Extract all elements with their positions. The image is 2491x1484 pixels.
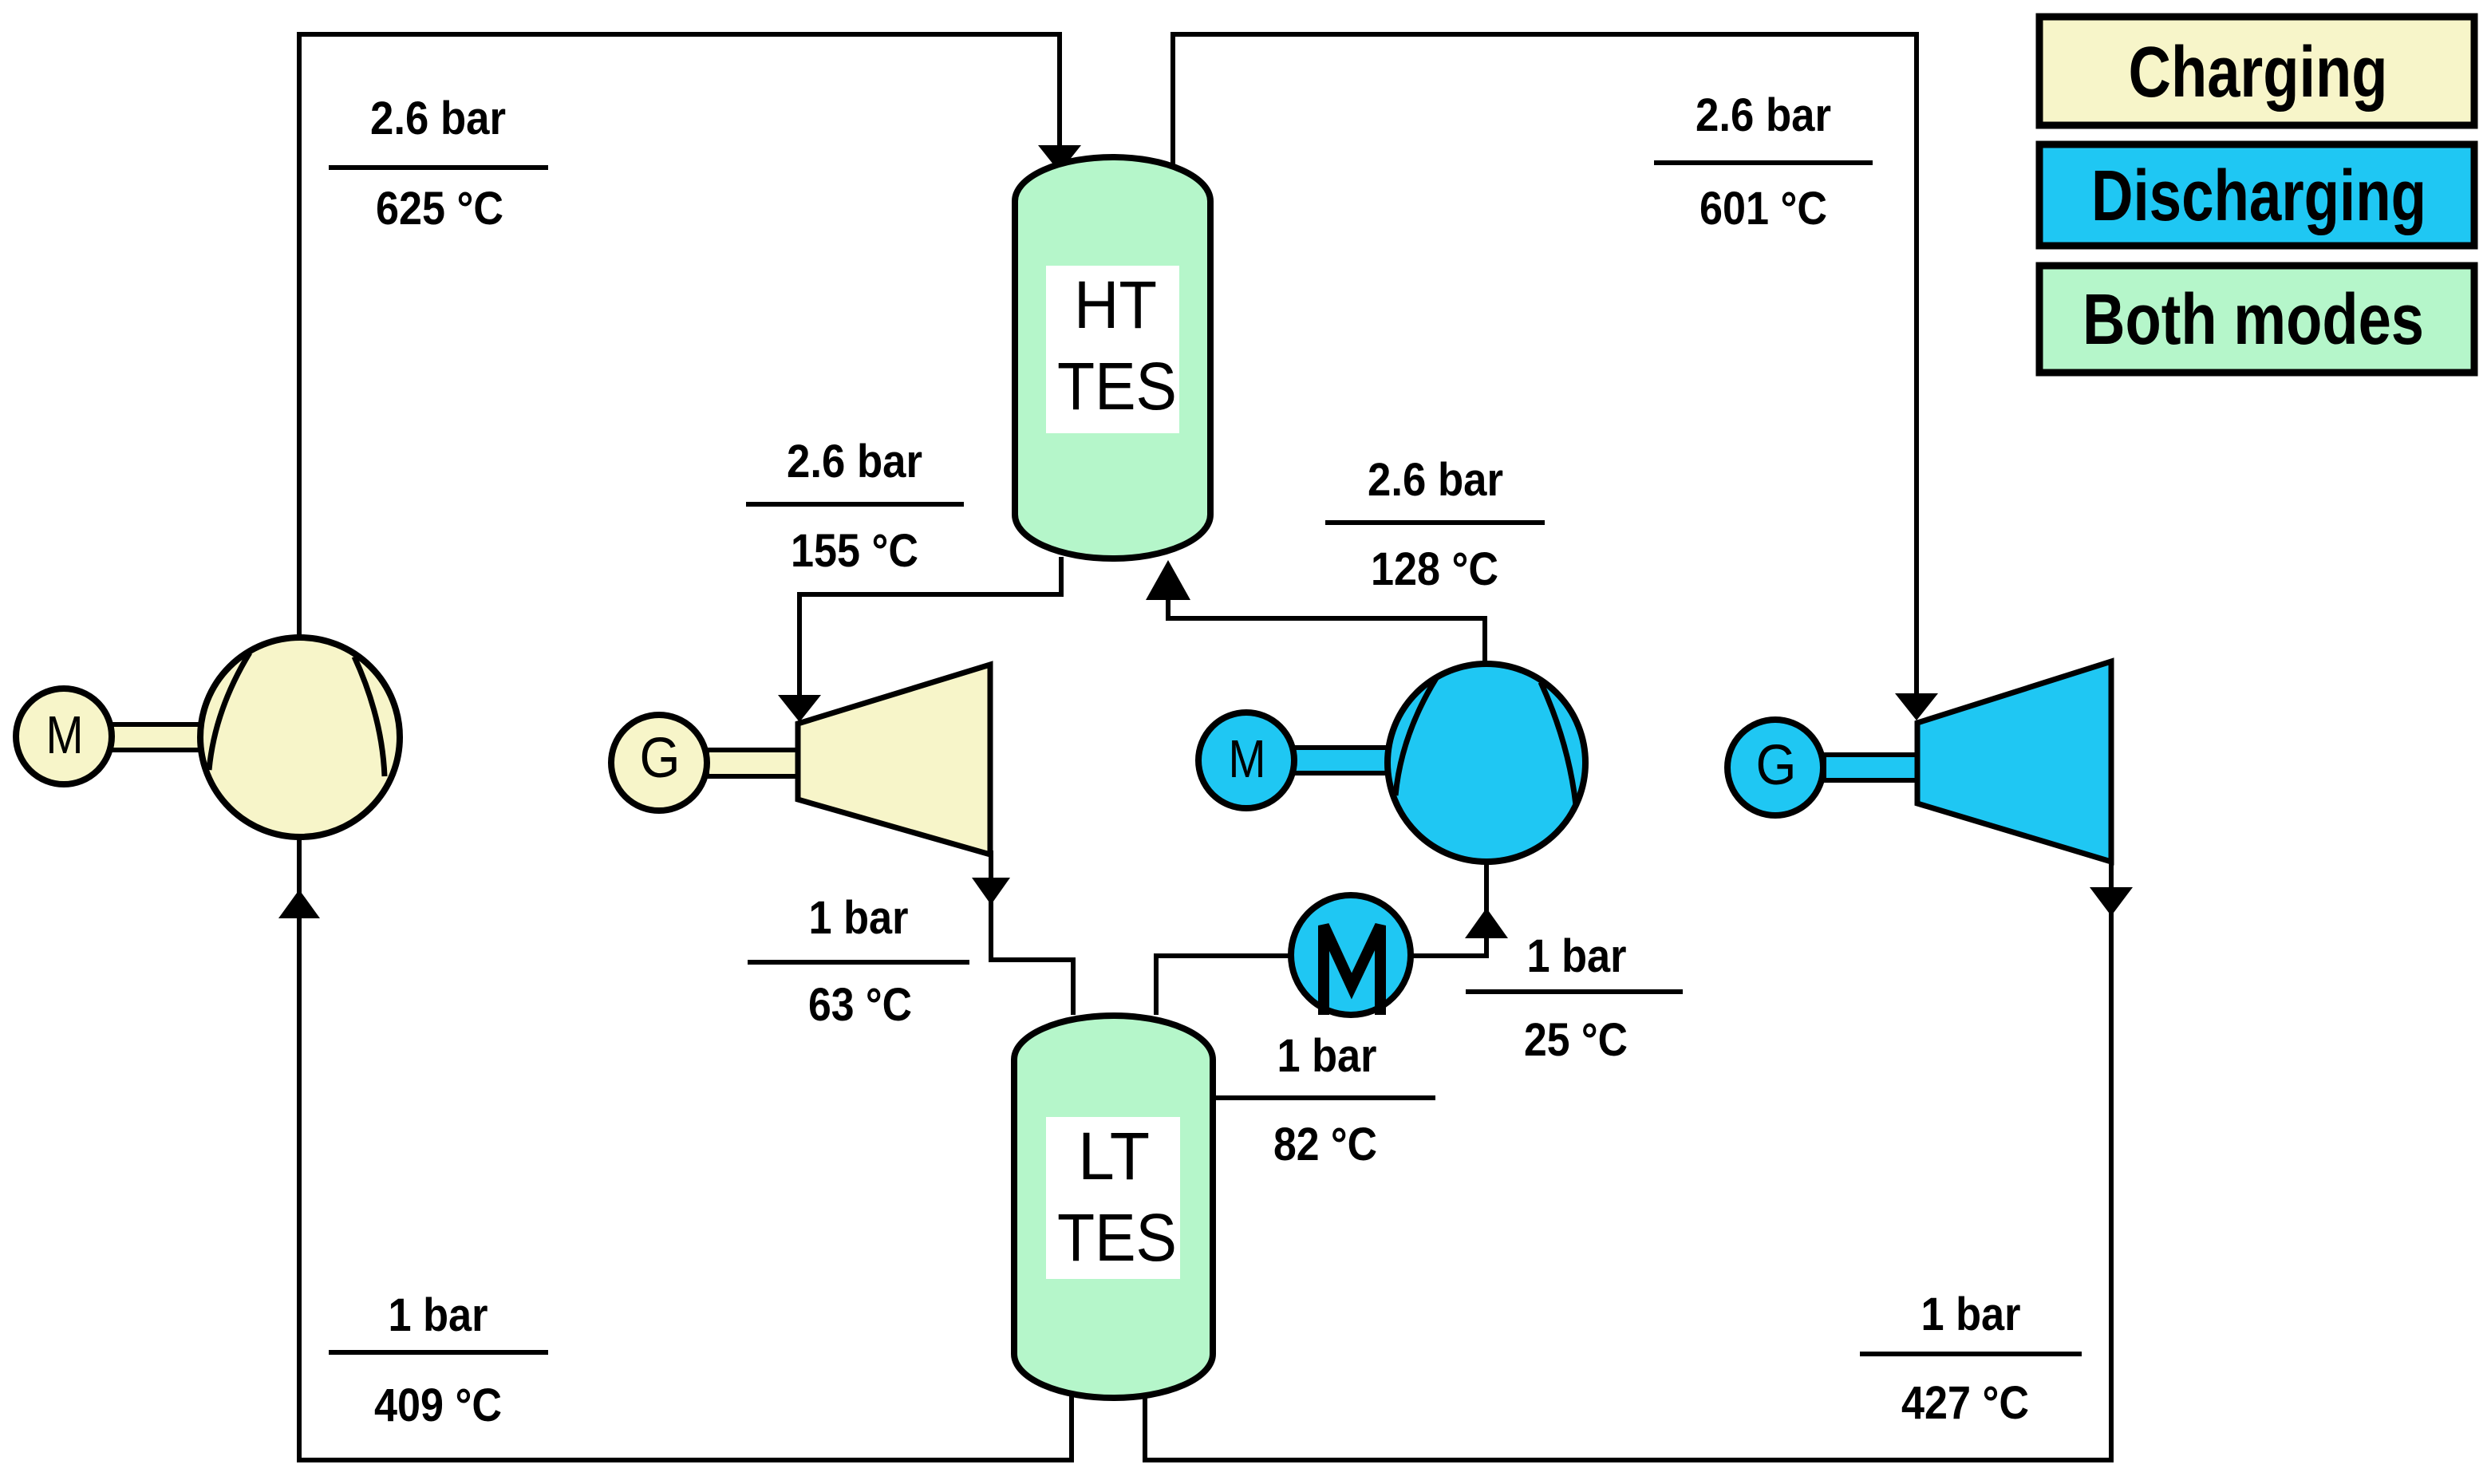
wire bottom-right horizontal [1143,1458,2114,1462]
label 1 bar / 25 C [1466,930,1683,1066]
label 2.6 bar / 625 C [329,93,548,235]
label 1 bar / 427 C [1860,1289,2082,1429]
svg-text:M: M [1229,729,1266,789]
LT TES vessel [1014,1016,1213,1398]
svg-text:409 °C: 409 °C [374,1379,502,1431]
wire LT TES bottom-right stub [1143,1395,1147,1462]
svg-text:Both modes: Both modes [2082,280,2424,360]
svg-text:Discharging: Discharging [2091,156,2426,236]
turbine T2 [1917,661,2111,862]
svg-text:25 °C: 25 °C [1524,1014,1628,1066]
wire turbine T2 outlet right drop [2109,860,2114,1462]
arrow into HT TES top [1038,145,1081,172]
svg-text:427 °C: 427 °C [1901,1377,2029,1429]
label 2.6 bar / 601 C [1654,89,1873,235]
arrow up into compressor K2 [1465,908,1508,938]
label 2.6 bar / 128 C [1325,454,1545,595]
svg-text:LT: LT [1078,1119,1150,1194]
arrow into turbine T2 inlet [1895,693,1938,720]
svg-text:TES: TES [1057,1200,1177,1275]
arrow into turbine T1 inlet [778,695,821,722]
legend box Both modes [2039,266,2474,373]
wire left riser bottom (compressor K1 outlet loop) [297,835,302,1462]
svg-text:2.6 bar: 2.6 bar [1696,89,1831,141]
turbine T1 [798,665,990,854]
svg-text:128 °C: 128 °C [1371,543,1498,595]
wire HT TES top-right riser [1170,32,1175,169]
svg-text:HT: HT [1074,267,1157,342]
motor M2 shaft [1293,748,1390,773]
svg-text:1 bar: 1 bar [1277,1030,1377,1082]
label 1 bar / 409 C [329,1289,548,1431]
wire left riser top [297,37,302,640]
svg-text:2.6 bar: 2.6 bar [1368,454,1503,506]
wire compressor K2 discharge to HT TES bottom [1168,589,1485,669]
wire LT TES bottom-left stub [1069,1395,1074,1462]
svg-text:Charging: Charging [2129,33,2388,112]
generator G1 [611,715,707,811]
motor M1 shaft [110,724,204,750]
svg-text:601 °C: 601 °C [1699,183,1827,235]
legend box Discharging [2039,144,2474,246]
svg-text:625 °C: 625 °C [376,183,503,235]
svg-text:G: G [1756,734,1797,797]
arrow up into compressor K1 [278,890,320,918]
wire bottom-left horizontal [297,1458,1074,1462]
wire HT TES bottom-left outlet [799,557,1061,716]
svg-text:M: M [46,705,84,765]
motor M1 [16,689,112,784]
compressor K2 [1388,664,1585,862]
svg-text:1 bar: 1 bar [1921,1289,2021,1340]
wire LT TES top-right to compressor K2 suction [1156,858,1486,1015]
wire drop into HT TES top [1057,32,1062,164]
svg-text:G: G [640,727,681,790]
svg-text:2.6 bar: 2.6 bar [370,93,506,144]
wire top-right horizontal [1170,32,1919,37]
motor M2 [1198,712,1294,808]
label 1 bar / 82 C [1216,1030,1435,1170]
generator G2 shaft [1824,755,1917,780]
svg-text:82 °C: 82 °C [1273,1119,1377,1170]
svg-text:TES: TES [1057,349,1177,424]
wire turbine T1 outlet to LT TES top-left [991,851,1073,1015]
legend box Charging [2039,17,2474,125]
svg-text:2.6 bar: 2.6 bar [787,436,922,487]
svg-text:1 bar: 1 bar [389,1289,488,1341]
wire drop into turbine T2 inlet [1914,32,1919,715]
compressor K1 [200,637,400,837]
arrow down on turbine T1 outlet [972,878,1010,905]
fan motor M3 [1291,895,1411,1015]
svg-text:1 bar: 1 bar [1527,930,1627,982]
wire top-left horizontal [297,32,1062,37]
HT TES vessel [1015,157,1210,558]
svg-text:63 °C: 63 °C [808,979,912,1031]
label 1 bar / 63 C [748,892,969,1031]
svg-text:155 °C: 155 °C [791,525,918,577]
arrow into HT TES bottom [1146,560,1190,600]
generator G1 shaft [707,750,799,776]
label 2.6 bar / 155 C [746,436,964,577]
generator G2 [1727,720,1823,815]
arrow down on right drop [2090,887,2133,916]
svg-text:1 bar: 1 bar [809,892,909,944]
